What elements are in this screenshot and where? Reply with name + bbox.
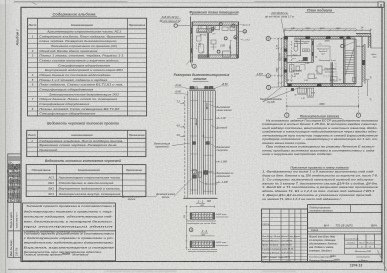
riser pipe bundle verticals: [189, 91, 191, 195]
paper right edge double line: [384, 2, 386, 271]
grid circle between details: [189, 228, 193, 232]
fragment radiator comb: [199, 55, 201, 58]
grid circle 1 left: [267, 85, 271, 89]
riser damper boxes mid: [192, 142, 195, 145]
bottom grid circles: [286, 88, 288, 113]
interior partition hatched mid: [311, 39, 313, 62]
plan walls: right of stair block: [361, 36, 363, 86]
riser elevation flags left: [180, 102, 185, 104]
table 3 grid: [26, 165, 146, 197]
riser elevation flags right: [215, 117, 220, 119]
stairs diagonal: [345, 48, 354, 76]
fragment top wall band: [192, 22, 238, 25]
title block left grid rows: [262, 212, 308, 214]
section detail 1-1 band: [190, 213, 214, 220]
paper left edge line: [5, 0, 7, 273]
table 2 grid: [27, 130, 146, 156]
title block bottom-left signature row: [308, 253, 345, 255]
plan interior dimension chain vertical: [291, 41, 293, 83]
fragment bathtub: [199, 44, 204, 53]
riser chimney caps: [189, 88, 215, 90]
left margin stamp column borders: [8, 154, 21, 257]
toilet fixture: [294, 43, 297, 46]
fragment bottom wall band: [198, 55, 238, 58]
fragment equipment row under top wall: [198, 26, 207, 32]
interior partition horizontal: [287, 61, 314, 63]
partition near pump room: [330, 62, 332, 86]
title block top-right cell: [350, 205, 352, 213]
plan stairwell: [343, 39, 345, 84]
plan walls: top-right annex: [356, 33, 371, 35]
right side dim T1: [366, 80, 368, 96]
title block left grid verticals: [269, 209, 271, 262]
title block stage table: [344, 234, 346, 254]
riser left building edge: [184, 97, 186, 199]
riser right edge: [214, 91, 216, 195]
plan top dimension line: [285, 29, 371, 31]
page curl bottom right: [378, 250, 387, 271]
plan walls: left: [283, 36, 285, 86]
grid circle 8: [266, 36, 270, 40]
fragment vertical dim 600: [230, 41, 232, 53]
paper top edge line: [14, 1, 378, 3]
riser base line: [183, 197, 217, 199]
leader circle T: [174, 24, 177, 27]
porch steps below bottom wall: [298, 88, 307, 93]
riser dotted channel hatch: [188, 92, 190, 194]
section detail 1-1 left dim chain: [186, 205, 188, 250]
fragment left wall: [190, 17, 192, 63]
paper bottom edge line: [8, 268, 385, 270]
riser stove boxes bottom: [192, 170, 196, 174]
title block outer: [262, 209, 308, 262]
fragment circled marks: [211, 27, 214, 30]
rotated dims left of plan: [278, 38, 280, 87]
equipment in heat room: [290, 65, 295, 73]
stairs rungs: [345, 50, 354, 52]
section detail 4-4 band: [190, 241, 214, 248]
fragment small fixtures right room: [222, 27, 228, 30]
riser arrows in channels: [206, 103, 208, 109]
second water inlet leader: [263, 87, 300, 102]
riser horizontal ties: [190, 99, 197, 101]
plan bottom dimension line: [287, 105, 359, 107]
section detail 1-1 dim line: [190, 206, 214, 208]
extra wall black blobs: [347, 36, 351, 39]
faint text below frame: [105, 270, 296, 273]
notes box border: [23, 203, 116, 261]
fragment grid circle 1 below: [190, 63, 192, 67]
plan walls: bottom: [284, 86, 362, 88]
plan walls: top: [284, 35, 362, 37]
grid circle 7: [266, 74, 270, 78]
water inlet leader: [263, 85, 284, 102]
top wall window blobs: [306, 36, 311, 39]
boxed label 3.05: [302, 49, 309, 52]
left wall window blobs: [284, 37, 288, 40]
sheet number box "3" top right corner: [378, 2, 384, 8]
table 1 "Содержание альбома" grid: [28, 18, 147, 116]
fragment inner partition vertical: [206, 33, 208, 57]
stairs circle mark: [341, 44, 344, 47]
fragment extra interior marks: [197, 29, 212, 33]
plan note leader: [281, 18, 285, 36]
top-left scratch: [30, 1, 37, 5]
fragment right wall: [236, 25, 238, 58]
interior partition: wc room: [300, 39, 302, 56]
